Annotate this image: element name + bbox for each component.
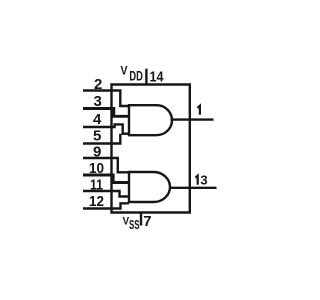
svg-text:9: 9 — [93, 144, 101, 161]
wire pin 10 lead to gate G2 input 2 — [83, 175, 129, 183]
wire pin 5 lead to gate G1 input 4 — [83, 134, 120, 144]
wire pin 11 lead to gate G2 input 3 — [83, 191, 129, 197]
svg-text:14: 14 — [150, 68, 165, 85]
pin number 1 (output) — [198, 106, 200, 115]
output wire pin 1 — [171, 118, 214, 120]
svg-text:V: V — [121, 64, 128, 78]
wire pin 4 lead jog to gate G1 input 3 — [83, 124, 129, 133]
wire pin 9 lead to gate G2 input 1 — [83, 158, 129, 172]
svg-text:10: 10 — [89, 160, 104, 177]
VDD pin 14 stub — [145, 69, 147, 85]
svg-text:7: 7 — [143, 213, 151, 230]
svg-text:3: 3 — [200, 173, 207, 188]
output wire pin 13 — [170, 187, 217, 189]
svg-text:12: 12 — [89, 193, 104, 210]
svg-text:4: 4 — [93, 111, 102, 128]
svg-text:3: 3 — [94, 93, 102, 110]
wire pin 3 lead to gate G1 input 2 — [83, 109, 129, 117]
pin number 13 (output) — [195, 176, 197, 185]
svg-text:2: 2 — [94, 76, 102, 93]
svg-text:11: 11 — [90, 177, 103, 194]
svg-text:SS: SS — [129, 218, 140, 232]
svg-text:5: 5 — [93, 128, 101, 145]
AND gate G2 — [129, 172, 170, 202]
IC outline box U1 — [112, 85, 190, 213]
AND gate G1 — [129, 105, 172, 135]
wire pin 12 lead to gate G2 input 4 — [83, 203, 129, 208]
VSS pin 7 stub — [140, 213, 142, 226]
wire pin 2 lead to gate G1 input 1 — [83, 91, 129, 107]
svg-text:DD: DD — [129, 69, 143, 84]
